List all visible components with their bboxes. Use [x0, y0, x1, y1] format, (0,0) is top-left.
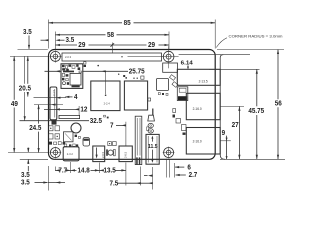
- dim 49: [11, 56, 18, 152]
- dim 3.5 bottom vertical: [21, 148, 30, 180]
- USB-C power connector: [63, 144, 79, 161]
- svg-text:3.5: 3.5: [66, 37, 75, 44]
- AV jack: [146, 134, 159, 164]
- small parts left of USB stacks: [152, 109, 153, 116]
- svg-text:2-6.5: 2-6.5: [123, 151, 127, 158]
- dim 24.5: [29, 105, 41, 153]
- dim 3.5 horizontal: [41, 37, 75, 44]
- svg-text:7: 7: [110, 123, 114, 130]
- dim 27: [232, 106, 241, 159]
- svg-text:27: 27: [232, 122, 239, 129]
- dots above 32.5 line: [104, 115, 106, 117]
- crystal can circle: [71, 123, 81, 133]
- dim 3.5 bottom row2: [21, 180, 65, 187]
- mounting hole top-left: [50, 51, 62, 63]
- board bottom edge extension left: [20, 158, 48, 160]
- dim 2.7 bottom right: [175, 172, 197, 179]
- svg-text:20.5: 20.5: [19, 85, 31, 92]
- mounting hole top-right: [162, 46, 179, 68]
- svg-text:14.8: 14.8: [78, 168, 90, 175]
- svg-text:3.5: 3.5: [21, 180, 30, 187]
- dim 56: [275, 50, 282, 160]
- ethernet jack: [177, 69, 220, 85]
- GPIO header: [62, 53, 163, 61]
- dim 6 bottom right: [166, 159, 191, 178]
- svg-text:2-2.4: 2-2.4: [104, 102, 111, 106]
- dots above SoC: [97, 65, 99, 67]
- svg-text:7.7: 7.7: [58, 168, 67, 175]
- small square right of SoC: [148, 98, 151, 101]
- dim 9: [222, 130, 228, 159]
- USB stack lower: [186, 128, 220, 155]
- micro HDMI 0: [93, 146, 105, 162]
- small parts right of module: [84, 62, 86, 64]
- svg-text:29: 29: [78, 42, 85, 49]
- CSI camera connector: [135, 116, 142, 164]
- svg-text:13.5: 13.5: [104, 168, 116, 175]
- dim 14.8: [71, 168, 100, 175]
- dim 3.5 vertical top-left: [18, 29, 48, 49]
- connector envelope outline: [179, 54, 250, 56]
- dim 85 top: [49, 20, 216, 49]
- svg-text:2-13.5: 2-13.5: [199, 80, 208, 84]
- svg-text:3.5: 3.5: [21, 172, 30, 179]
- passives under controller: [158, 93, 160, 95]
- trapezoid component: [148, 115, 155, 121]
- dim 12: [44, 106, 88, 115]
- right extension lines: [209, 68, 260, 70]
- svg-text:2-3.2: 2-3.2: [67, 152, 74, 156]
- svg-text:25.75: 25.75: [129, 69, 145, 76]
- corner radius callout: [216, 35, 283, 48]
- svg-text:2-16.0: 2-16.0: [193, 139, 202, 143]
- svg-text:2-0.3: 2-0.3: [65, 55, 72, 59]
- thin rectangle component: [59, 115, 80, 118]
- svg-text:3.5: 3.5: [23, 29, 32, 36]
- svg-text:2-6.5: 2-6.5: [101, 151, 105, 158]
- svg-text:2-1.5: 2-1.5: [52, 89, 56, 96]
- svg-text:CORNER RADIUS = 3.0mm: CORNER RADIUS = 3.0mm: [229, 35, 283, 39]
- oval pads: [147, 123, 154, 133]
- svg-text:12: 12: [80, 107, 87, 114]
- connector with dark band: [177, 87, 188, 101]
- svg-text:2.7: 2.7: [189, 172, 198, 179]
- svg-text:56: 56: [275, 101, 282, 108]
- dim 29 right: [112, 42, 169, 49]
- svg-text:2-16.0: 2-16.0: [193, 107, 202, 111]
- svg-text:58: 58: [107, 32, 114, 39]
- bits right of IC: [83, 138, 90, 147]
- IC mid-left: [64, 132, 74, 142]
- SoC chip: [124, 81, 147, 110]
- svg-text:7.5: 7.5: [110, 180, 119, 187]
- hole center extension left: [10, 55, 48, 57]
- USB stack upper: [186, 93, 220, 119]
- bottom hole extension left: [8, 152, 48, 154]
- RAM chip: [91, 81, 120, 111]
- svg-text:85: 85: [124, 20, 131, 27]
- dim 45.75: [248, 69, 264, 159]
- dim 32.5 line: [20, 118, 103, 125]
- svg-text:45.75: 45.75: [248, 108, 264, 115]
- dim 4: [65, 94, 78, 101]
- tilted passives: [169, 75, 175, 81]
- DSI center extension: [34, 104, 63, 106]
- dim 7: [110, 122, 126, 146]
- bottom extension lines: [47, 166, 49, 191]
- left cluster small parts: [49, 126, 66, 145]
- mounting hole bottom-left: [50, 147, 62, 159]
- USB/ethernet controller chip: [157, 79, 169, 91]
- mounting hole bottom-right: [163, 147, 175, 159]
- svg-text:29: 29: [148, 42, 155, 49]
- svg-text:24.5: 24.5: [29, 125, 41, 132]
- dim 29 left: [55, 42, 114, 53]
- component below top-right hole: [163, 63, 178, 72]
- dim 7.7: [55, 168, 70, 175]
- svg-text:4: 4: [74, 94, 78, 101]
- DSI connector: [50, 87, 57, 125]
- dim 13.5: [99, 168, 126, 175]
- svg-text:6.14: 6.14: [181, 61, 193, 67]
- dim 20.5: [19, 56, 31, 120]
- micro HDMI 1: [119, 146, 132, 162]
- passives between USB-C and HDMI0: [108, 142, 112, 146]
- svg-text:49: 49: [11, 101, 18, 108]
- PoE/module block top-left: [61, 64, 83, 89]
- svg-text:9: 9: [222, 130, 226, 137]
- board outline: [49, 50, 216, 160]
- dim 25.75: [45, 69, 145, 94]
- svg-text:32.5: 32.5: [90, 118, 102, 125]
- dim 11.5 inside AV jack: [148, 136, 158, 163]
- svg-text:11.5: 11.5: [148, 144, 158, 150]
- leader to DSI top: [34, 97, 67, 99]
- dim 6.14: [181, 61, 193, 70]
- dim 58: [55, 32, 169, 51]
- small circle component: [106, 149, 115, 155]
- dim 7.5 bottom: [110, 167, 153, 190]
- svg-text:6: 6: [187, 164, 191, 171]
